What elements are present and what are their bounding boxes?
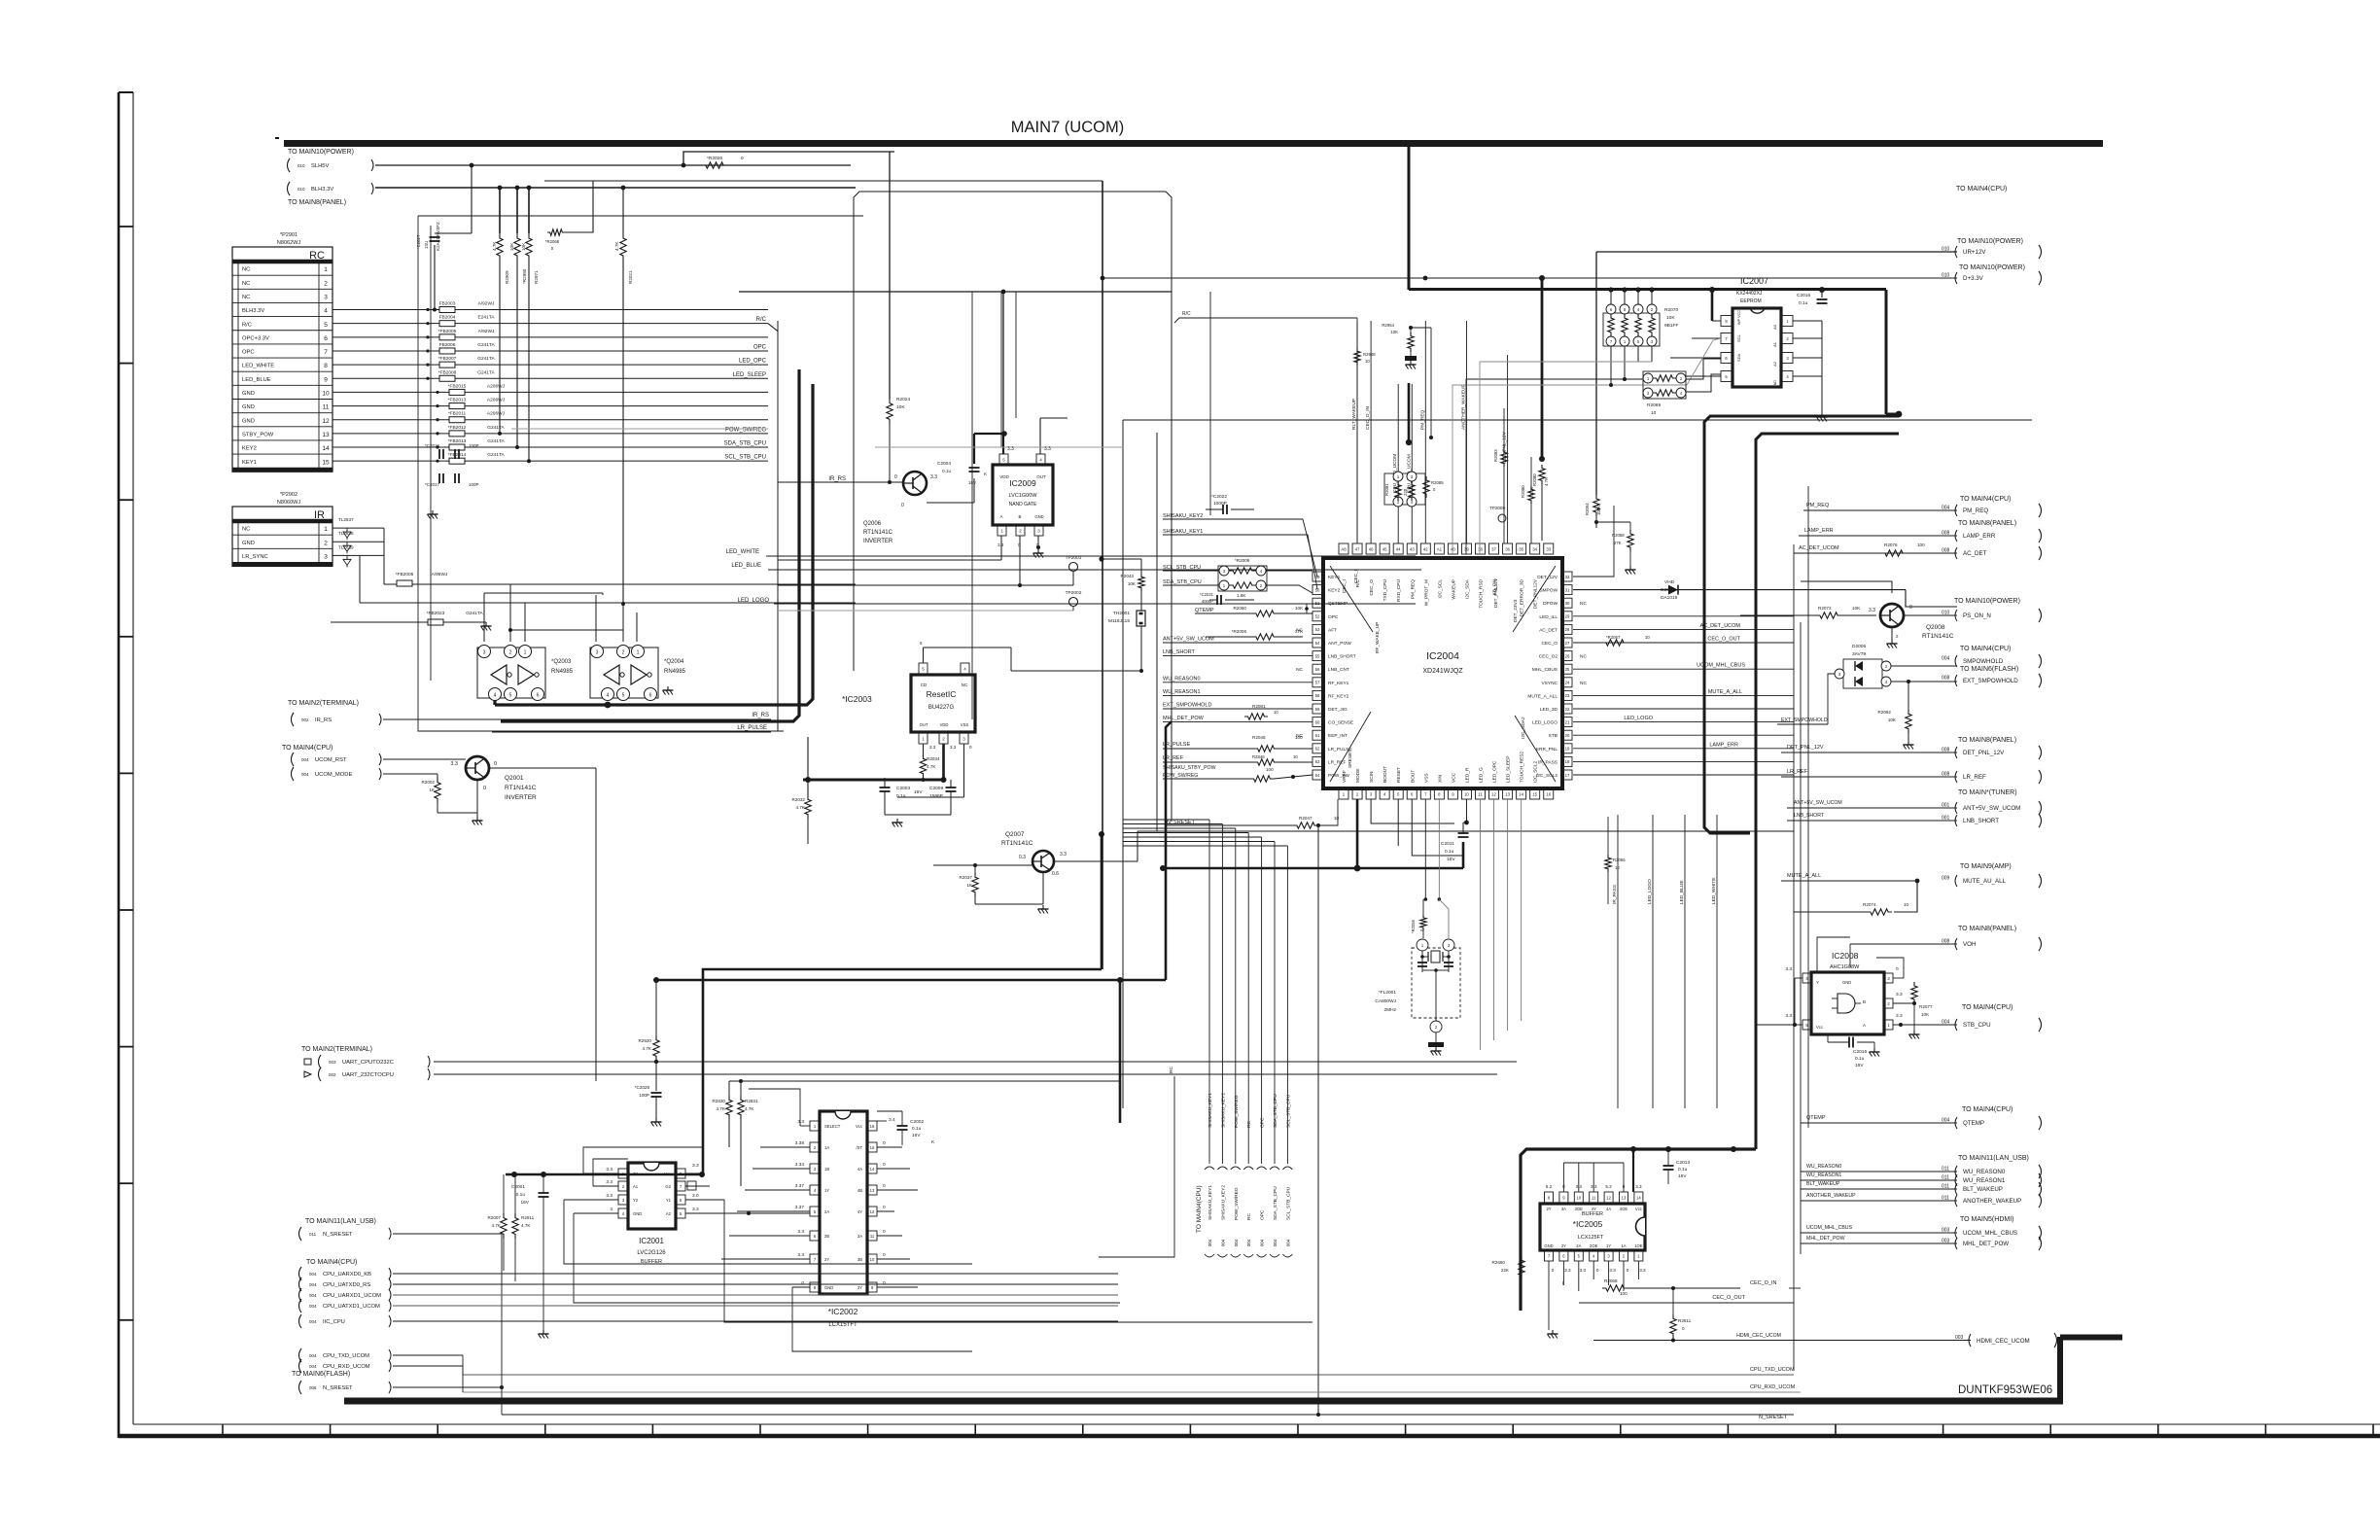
svg-text:B: B: [1018, 514, 1021, 519]
svg-text:WU_REASON0: WU_REASON0: [1163, 676, 1201, 682]
svg-text:TO MAIN4(CPU): TO MAIN4(CPU): [1962, 1106, 2012, 1113]
svg-text:0.1u: 0.1u: [516, 1192, 526, 1198]
svg-text:4A: 4A: [857, 1167, 862, 1172]
IR connector wires: [332, 527, 384, 529]
svg-text:4.7K: 4.7K: [643, 1046, 652, 1051]
svg-text:0.1u: 0.1u: [1799, 300, 1808, 306]
svg-text:R2080: R2080: [1532, 473, 1537, 486]
left routing bus: [544, 180, 1102, 182]
svg-text:UCOM_MODE: UCOM_MODE: [315, 772, 352, 778]
svg-text:LED_ILL: LED_ILL: [1539, 614, 1557, 620]
svg-text:10K: 10K: [1921, 1012, 1930, 1017]
svg-text:TO MAIN5(HDMI): TO MAIN5(HDMI): [1960, 1216, 2013, 1223]
D+3.3V branch R2080: [1541, 278, 1544, 459]
svg-text:TO MAIN10(POWER): TO MAIN10(POWER): [1957, 238, 2023, 245]
svg-text:R2034: R2034: [927, 756, 940, 761]
svg-text:R2080: R2080: [1521, 485, 1525, 498]
svg-text:SDA_STB_CPU: SDA_STB_CPU: [1273, 1186, 1278, 1220]
svg-text:56: 56: [1315, 667, 1320, 672]
svg-text:R2024: R2024: [896, 397, 910, 402]
svg-text:QSTEMP: QSTEMP: [1328, 601, 1347, 607]
svg-text:3AV79: 3AV79: [1852, 651, 1866, 657]
svg-text:*R2068: *R2068: [545, 239, 560, 244]
svg-text:Vcc: Vcc: [1635, 1207, 1642, 1211]
svg-text:RLT_WAKEUP: RLT_WAKEUP: [1351, 399, 1357, 430]
svg-text:4.7K: 4.7K: [492, 241, 497, 251]
svg-text:25: 25: [1565, 667, 1570, 672]
svg-text:1K: 1K: [966, 883, 973, 888]
svg-text:1: 1: [524, 650, 527, 656]
svg-text:3.3: 3.3: [1060, 852, 1067, 857]
svg-text:3.3: 3.3: [692, 1163, 699, 1169]
svg-text:CD: CD: [921, 682, 927, 687]
svg-text:LED_SLEEP: LED_SLEEP: [733, 372, 766, 378]
svg-text:*IC2002: *IC2002: [828, 1307, 858, 1316]
svg-text:4.7K: 4.7K: [745, 1106, 754, 1111]
svg-text:DUNTKF953WE06: DUNTKF953WE06: [1958, 1384, 2052, 1396]
svg-text:LNB_CNT: LNB_CNT: [1328, 667, 1349, 673]
svg-text:MHL_CBUS: MHL_CBUS: [1532, 667, 1557, 673]
svg-text:LAMP_ERR: LAMP_ERR: [1963, 533, 1996, 540]
svg-text:CPU_RXD_UCOM: CPU_RXD_UCOM: [1750, 1384, 1796, 1390]
svg-text:1: 1: [324, 526, 328, 533]
svg-text:10: 10: [1365, 359, 1370, 364]
svg-text:/ST: /ST: [856, 1145, 862, 1150]
svg-text:MAIN7 (UCOM): MAIN7 (UCOM): [1011, 119, 1124, 136]
svg-text:A: A: [999, 514, 1002, 519]
svg-text:BU4227G: BU4227G: [928, 705, 955, 711]
svg-text:12: 12: [1606, 1195, 1611, 1200]
svg-text:K: K: [984, 472, 987, 476]
svg-text:52: 52: [1315, 614, 1320, 619]
svg-text:11: 11: [323, 404, 330, 411]
svg-text:TO MAIN4(CPU): TO MAIN4(CPU): [1962, 1004, 2012, 1011]
svg-text:TO MAIN4(CPU): TO MAIN4(CPU): [1960, 646, 2011, 652]
svg-text:*FB2008: *FB2008: [438, 369, 457, 375]
svg-text:Vcc: Vcc: [1816, 1025, 1823, 1030]
svg-text:R2830: R2830: [712, 1099, 725, 1103]
svg-text:004: 004: [309, 1319, 317, 1324]
svg-text:IC2001: IC2001: [639, 1237, 664, 1245]
svg-text:LNB_SHORT: LNB_SHORT: [1794, 813, 1825, 819]
svg-text:LED_LOGO: LED_LOGO: [738, 598, 770, 604]
svg-text:0: 0: [883, 1205, 886, 1210]
svg-text:6: 6: [537, 693, 540, 699]
svg-text:ANT+5V_SW_UCOM: ANT+5V_SW_UCOM: [1963, 805, 2020, 812]
svg-text:GND: GND: [633, 1211, 642, 1216]
svg-text:27K: 27K: [1295, 629, 1304, 634]
svg-text:008: 008: [1942, 676, 1950, 682]
vertical nets IR_PASS LED_LOGO LED_BLUE LED_WHITE: [1617, 815, 1619, 1108]
svg-text:12: 12: [1491, 791, 1496, 796]
ferrite beads FB2003-FB2014 on RC rows: [332, 309, 768, 311]
svg-text:16V: 16V: [1855, 1063, 1864, 1068]
svg-text:0: 0: [883, 1140, 886, 1146]
svg-text:1SU: 1SU: [424, 241, 429, 249]
svg-text:R2032: R2032: [791, 797, 805, 802]
svg-text:SMPOWHOLD: SMPOWHOLD: [1963, 658, 2004, 665]
svg-text:0: 0: [883, 1280, 886, 1286]
resistor arrays R2070 R2069: [1603, 313, 1660, 346]
svg-text:R2092: R2092: [1877, 710, 1891, 715]
svg-text:GND: GND: [1842, 980, 1851, 985]
svg-text:LED_WHITE: LED_WHITE: [242, 364, 274, 369]
svg-text:OPC: OPC: [242, 350, 255, 356]
svg-text:OPC: OPC: [1328, 614, 1339, 620]
svg-text:13: 13: [322, 432, 330, 438]
svg-text:12: 12: [870, 1209, 875, 1214]
svg-text:0.6: 0.6: [1052, 871, 1059, 877]
svg-text:ANOTHER_WAKEUP: ANOTHER_WAKEUP: [1963, 1198, 2021, 1205]
svg-text:3.3: 3.3: [606, 1167, 612, 1172]
svg-text:24: 24: [1565, 681, 1570, 685]
svg-text:SCL_STB_CPU: SCL_STB_CPU: [1285, 1186, 1291, 1220]
svg-text:0.1u: 0.1u: [942, 469, 951, 473]
svg-text:EXT_SMPOWHOLD: EXT_SMPOWHOLD: [1963, 678, 2018, 684]
svg-text:3.37: 3.37: [795, 1205, 805, 1210]
svg-text:R2046: R2046: [1252, 735, 1266, 740]
svg-text:004: 004: [1234, 1239, 1239, 1246]
svg-text:DET_PNL12V: DET_PNL12V: [1493, 577, 1499, 608]
svg-text:XD241WJQZ: XD241WJQZ: [1422, 668, 1463, 675]
svg-text:PM_REQ: PM_REQ: [1410, 579, 1416, 600]
svg-text:14: 14: [870, 1167, 875, 1172]
svg-text:C2011: C2011: [1441, 841, 1454, 847]
svg-text:BLH3.3V: BLH3.3V: [242, 308, 264, 314]
svg-text:5: 5: [509, 693, 512, 699]
svg-text:TO MAIN4(CPU): TO MAIN4(CPU): [1196, 1185, 1203, 1233]
svg-text:10: 10: [1334, 816, 1340, 821]
svg-text:R2081: R2081: [1384, 483, 1389, 496]
svg-text:PM_REQ: PM_REQ: [1806, 503, 1830, 508]
svg-text:14: 14: [1636, 1195, 1641, 1200]
svg-text:*R2009: *R2009: [1235, 558, 1250, 563]
svg-text:G241TA: G241TA: [477, 342, 495, 348]
svg-text:POW_SW: POW_SW: [1328, 773, 1349, 779]
svg-text:22: 22: [1565, 707, 1570, 712]
svg-text:15: 15: [1532, 791, 1537, 796]
svg-text:10K: 10K: [1666, 315, 1675, 321]
svg-text:IC2007: IC2007: [1740, 276, 1768, 286]
svg-text:SDA_STB_CPU: SDA_STB_CPU: [1273, 1094, 1278, 1128]
svg-text:IIC_CPU: IIC_CPU: [323, 1319, 345, 1325]
svg-text:13: 13: [1505, 791, 1510, 796]
svg-text:R2081: R2081: [1252, 704, 1266, 709]
svg-text:*FB2014: *FB2014: [448, 452, 467, 458]
svg-text:33: 33: [1546, 546, 1551, 551]
svg-text:NC: NC: [242, 295, 250, 300]
svg-text:FB2003: FB2003: [439, 301, 456, 307]
svg-text:0: 0: [1682, 1326, 1685, 1331]
svg-text:11: 11: [1592, 1195, 1596, 1200]
svg-text:RF_KEY1: RF_KEY1: [1328, 681, 1349, 686]
svg-text:KEY2: KEY2: [1328, 588, 1341, 594]
svg-text:004: 004: [309, 1272, 317, 1277]
buffer IC2005 LCX125FT: [1540, 1204, 1645, 1250]
svg-text:G241TA: G241TA: [477, 369, 495, 375]
svg-text:10: 10: [870, 1257, 875, 1262]
svg-text:A206WJ: A206WJ: [487, 398, 506, 403]
svg-text:004: 004: [309, 1364, 317, 1369]
svg-text:RN4985: RN4985: [664, 669, 686, 675]
svg-text:46: 46: [1369, 546, 1374, 551]
svg-text:3B: 3B: [857, 1257, 862, 1262]
svg-text:SDA_STB_CPU: SDA_STB_CPU: [1163, 579, 1202, 585]
svg-text:100: 100: [1266, 767, 1274, 772]
svg-text:GND: GND: [1544, 1243, 1553, 1248]
svg-text:SRESET: SRESET: [1347, 750, 1353, 768]
svg-text:R2954: R2954: [1382, 323, 1394, 328]
svg-text:VHD: VHD: [1664, 579, 1675, 585]
svg-text:0.1u: 0.1u: [1678, 1167, 1688, 1172]
svg-text:5.2: 5.2: [1605, 1184, 1612, 1189]
svg-text:SELECT: SELECT: [824, 1124, 841, 1129]
svg-text:C2004: C2004: [937, 461, 951, 467]
svg-text:B: B: [1863, 999, 1866, 1004]
svg-text:*C2021: *C2021: [1200, 592, 1214, 597]
svg-text:A1: A1: [1437, 546, 1443, 551]
svg-text:16: 16: [870, 1124, 875, 1129]
svg-text:ANT+5V_SW_UCOM: ANT+5V_SW_UCOM: [1163, 637, 1214, 643]
svg-text:0: 0: [483, 786, 486, 791]
svg-text:QTEMP: QTEMP: [1806, 1115, 1826, 1121]
svg-text:LED_BLUE: LED_BLUE: [731, 563, 761, 569]
svg-text:IR_PASS: IR_PASS: [1612, 885, 1618, 904]
svg-text:3A: 3A: [857, 1234, 862, 1239]
svg-text:10K: 10K: [1852, 606, 1861, 611]
svg-text:EEP_INT: EEP_INT: [1328, 733, 1347, 739]
svg-text:4.7K: 4.7K: [1529, 487, 1534, 496]
svg-text:LR_REF: LR_REF: [1787, 769, 1808, 775]
svg-text:KEY1: KEY1: [242, 460, 257, 466]
svg-text:006: 006: [309, 1385, 317, 1390]
svg-text:R2060: R2060: [1233, 606, 1246, 611]
svg-text:STBY_POW: STBY_POW: [242, 432, 274, 437]
svg-text:55: 55: [1315, 653, 1320, 658]
pull-up resistors R2009 R2030 R2971 R2021: [471, 165, 472, 233]
svg-text:LED_WHITE: LED_WHITE: [726, 549, 759, 555]
svg-text:*FB2013: *FB2013: [448, 438, 467, 444]
svg-text:1Y: 1Y: [1606, 1243, 1611, 1248]
svg-text:WU_REASON1: WU_REASON1: [1806, 1172, 1841, 1178]
svg-text:TO MAIN10(POWER): TO MAIN10(POWER): [1959, 264, 2025, 271]
svg-text:31: 31: [1565, 587, 1570, 592]
svg-text:*FB2013: *FB2013: [448, 398, 467, 403]
svg-text:10: 10: [322, 391, 330, 398]
svg-text:N8060WJ: N8060WJ: [277, 500, 300, 506]
svg-text:CEC_O_IN: CEC_O_IN: [1750, 1280, 1777, 1286]
svg-text:*IC2003: *IC2003: [842, 694, 872, 704]
svg-text:0: 0: [741, 156, 744, 161]
svg-text:60: 60: [1315, 719, 1320, 724]
svg-text:38: 38: [1478, 546, 1483, 551]
svg-text:CEC_O: CEC_O: [1369, 579, 1375, 596]
svg-text:LED_R: LED_R: [1464, 767, 1470, 783]
svg-text:TOUCH_RSD: TOUCH_RSD: [1479, 578, 1485, 608]
svg-text:004: 004: [309, 1304, 317, 1309]
svg-text:SHISAKU_KEY1: SHISAKU_KEY1: [1163, 529, 1203, 535]
svg-text:POW_SW/REG: POW_SW/REG: [1234, 1095, 1240, 1128]
svg-text:GND: GND: [242, 404, 255, 410]
svg-text:I2C_SCL: I2C_SCL: [1437, 579, 1443, 599]
svg-text:WU_REASON1: WU_REASON1: [1163, 689, 1201, 695]
svg-text:1Y: 1Y: [824, 1188, 829, 1193]
svg-text:13: 13: [870, 1188, 875, 1193]
svg-text:C2016: C2016: [1797, 293, 1810, 298]
svg-text:C2003: C2003: [896, 786, 910, 791]
svg-text:3: 3: [596, 650, 599, 656]
svg-text:LED_LOGO: LED_LOGO: [1647, 879, 1653, 904]
svg-text:DPOW: DPOW: [1543, 601, 1557, 607]
svg-text:45: 45: [1382, 546, 1387, 551]
svg-text:R2971: R2971: [534, 270, 539, 284]
svg-text:4.7K: 4.7K: [614, 241, 619, 251]
svg-text:UART_232CTOCPU: UART_232CTOCPU: [342, 1072, 394, 1078]
svg-text:1K: 1K: [429, 787, 436, 792]
gray nets: [511, 428, 768, 430]
svg-text:LVC2G126: LVC2G126: [637, 1250, 666, 1256]
svg-text:LAMP_ERR: LAMP_ERR: [1709, 742, 1738, 748]
svg-text:MHL_DET_POW: MHL_DET_POW: [1963, 1241, 2009, 1247]
svg-text:ANT+5V_SW_UCOM: ANT+5V_SW_UCOM: [1794, 800, 1842, 806]
svg-text:*FB2023: *FB2023: [427, 611, 445, 616]
svg-text:004: 004: [1285, 1239, 1290, 1246]
svg-text:10K: 10K: [1128, 581, 1137, 586]
svg-text:3.3: 3.3: [1869, 608, 1875, 613]
svg-text:1: 1: [324, 266, 328, 273]
svg-text:I2C_SDA2: I2C_SDA2: [1521, 717, 1526, 739]
svg-text:3.3: 3.3: [606, 1193, 612, 1199]
svg-text:220: 220: [1403, 488, 1408, 496]
svg-text:TO MAIN2(TERMINAL): TO MAIN2(TERMINAL): [301, 1046, 372, 1053]
svg-text:13: 13: [1622, 1195, 1627, 1200]
svg-text:C2001: C2001: [511, 1184, 525, 1190]
svg-text:DET_23V3: DET_23V3: [1513, 599, 1519, 622]
crystal FL2001 and MCU bottom wires: [1356, 799, 1359, 868]
svg-text:4Y: 4Y: [1592, 1207, 1596, 1211]
svg-text:004: 004: [1220, 1239, 1225, 1246]
svg-text:10K: 10K: [521, 242, 526, 251]
svg-text:RF_KEY2: RF_KEY2: [1328, 693, 1349, 699]
svg-text:002: 002: [301, 717, 309, 722]
svg-text:*R2006: *R2006: [1232, 629, 1247, 634]
svg-text:LVC1G00W: LVC1G00W: [1009, 493, 1038, 499]
svg-text:MUTE_A_ALL: MUTE_A_ALL: [1787, 873, 1821, 879]
ground under Q2004: [667, 686, 669, 690]
svg-text:CEC_O_IN: CEC_O_IN: [1365, 405, 1371, 430]
svg-text:TO MAIN4(CPU): TO MAIN4(CPU): [282, 745, 332, 752]
svg-text:NAND GATE: NAND GATE: [1009, 502, 1037, 507]
svg-text:LED_LOGO: LED_LOGO: [1532, 720, 1557, 726]
svg-text:QTEMP: QTEMP: [1195, 608, 1214, 613]
svg-text:I2C_SDA: I2C_SDA: [1464, 578, 1470, 599]
bottom center vertical stubs TO MAIN4(CPU): [1123, 819, 1209, 821]
svg-text:004: 004: [1273, 1239, 1277, 1246]
svg-text:16V: 16V: [1447, 857, 1455, 862]
svg-text:011: 011: [309, 1232, 317, 1237]
svg-text:OUT: OUT: [920, 722, 928, 727]
svg-text:43: 43: [1410, 546, 1415, 551]
svg-text:R2660: R2660: [1491, 1260, 1505, 1265]
svg-text:0: 0: [1627, 1268, 1629, 1273]
svg-text:30: 30: [1565, 601, 1570, 606]
svg-text:AC_DET_UCOM: AC_DET_UCOM: [1699, 623, 1740, 629]
svg-text:1A: 1A: [824, 1145, 829, 1150]
svg-text:PS_ON_N: PS_ON_N: [1963, 612, 1991, 619]
svg-text:100P: 100P: [469, 482, 479, 487]
svg-text:POW_SW/REG: POW_SW/REG: [1234, 1187, 1240, 1220]
thick loop below IC2007: [1704, 416, 1899, 833]
svg-text:*Q2003: *Q2003: [551, 659, 572, 665]
svg-text:SHISAKU_KEY2: SHISAKU_KEY2: [1220, 1185, 1226, 1220]
svg-text:3.3: 3.3: [1580, 1268, 1587, 1273]
svg-text:TO MAIN8(PANEL): TO MAIN8(PANEL): [1958, 926, 2016, 932]
svg-text:LED_LOGO: LED_LOGO: [1624, 716, 1653, 721]
svg-text:*IC2005: *IC2005: [1573, 1219, 1603, 1229]
svg-text:0.1u: 0.1u: [912, 1126, 922, 1132]
svg-text:VOH: VOH: [1963, 941, 1976, 948]
svg-text:WAKEUP: WAKEUP: [1451, 579, 1456, 600]
svg-text:47: 47: [1355, 546, 1360, 551]
svg-text:R2920: R2920: [638, 1038, 651, 1043]
svg-text:MHL_DET_POW: MHL_DET_POW: [1163, 716, 1205, 721]
svg-text:4: 4: [324, 308, 328, 315]
LED_R LED_G LED_OPC LED_SLEEP verticals: [1480, 799, 1482, 1050]
svg-text:4: 4: [607, 693, 610, 699]
svg-text:002: 002: [329, 1072, 336, 1077]
svg-text:M116JL15: M116JL15: [1108, 618, 1130, 624]
svg-text:2B: 2B: [824, 1234, 829, 1239]
svg-text:FB2006: FB2006: [439, 342, 456, 348]
svg-text:A2: A2: [666, 1211, 672, 1216]
svg-text:WU_REASON0: WU_REASON0: [1806, 1164, 1841, 1170]
test points TP2001 TP2002: [1069, 563, 1078, 572]
svg-text:*FL2001: *FL2001: [1379, 990, 1396, 996]
svg-text:4.7K: 4.7K: [717, 1106, 726, 1111]
svg-text:*FB2005: *FB2005: [396, 572, 414, 577]
svg-text:2Y: 2Y: [824, 1257, 829, 1262]
svg-text:4Y: 4Y: [857, 1209, 862, 1214]
level shifter IC2002 LCX15TFT: [820, 1111, 867, 1294]
svg-text:EXT_SMPOWHOLD: EXT_SMPOWHOLD: [1163, 703, 1211, 709]
svg-text:3.4: 3.4: [889, 1117, 895, 1123]
svg-text:12: 12: [322, 418, 330, 425]
svg-text:IC2009: IC2009: [1009, 478, 1036, 488]
svg-text:CPU_TXD_UCOM: CPU_TXD_UCOM: [1750, 1367, 1795, 1373]
svg-text:27K: 27K: [1614, 541, 1622, 545]
svg-text:TP2002: TP2002: [1066, 590, 1082, 596]
svg-text:TO MAIN8(PANEL): TO MAIN8(PANEL): [288, 199, 346, 206]
svg-text:GND: GND: [242, 391, 255, 397]
svg-text:10: 10: [1274, 710, 1278, 715]
svg-text:SHISAKU_KEY2: SHISAKU_KEY2: [1163, 513, 1203, 519]
svg-text:WU_REASON0: WU_REASON0: [1963, 1169, 2006, 1175]
svg-text:GND: GND: [242, 418, 255, 424]
svg-text:LNB_SHORT: LNB_SHORT: [1163, 649, 1196, 655]
svg-text:N_SRESET: N_SRESET: [323, 1385, 353, 1391]
svg-text:R2085: R2085: [1431, 480, 1444, 485]
svg-text:R2068: R2068: [1604, 1278, 1618, 1283]
svg-text:TOUCH_RES2: TOUCH_RES2: [1520, 752, 1525, 783]
svg-text:004: 004: [309, 1282, 317, 1287]
svg-text:C2016: C2016: [1853, 1049, 1867, 1055]
svg-text:N_SRESET: N_SRESET: [1759, 1415, 1788, 1420]
svg-text:004: 004: [301, 772, 309, 777]
svg-text:0: 0: [1552, 1268, 1555, 1273]
svg-text:63: 63: [1315, 759, 1320, 764]
svg-text:61: 61: [1315, 733, 1320, 738]
svg-text:100: 100: [1295, 735, 1303, 740]
